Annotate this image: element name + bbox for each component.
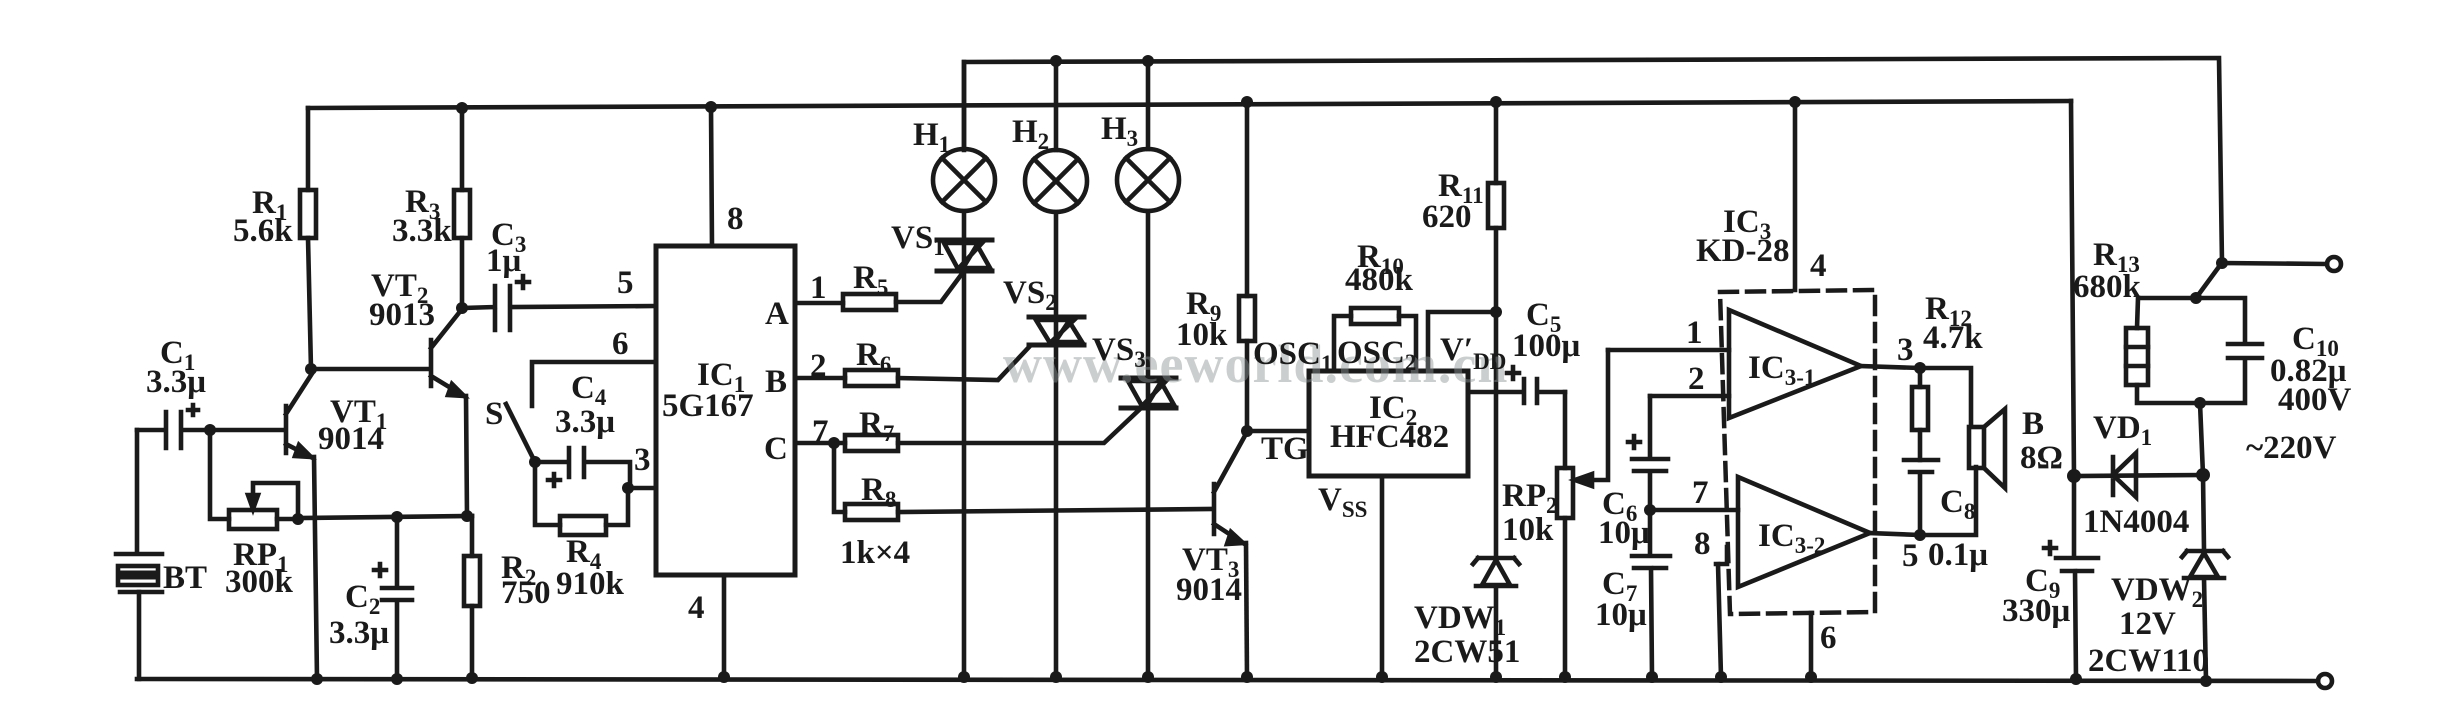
transistor VT2 [431,309,464,396]
svg-text:1: 1 [1686,315,1703,351]
svg-text:4: 4 [1810,248,1827,284]
wire IC3-2 output node5 [1870,467,1976,535]
wire IC2 VSS to ground [1380,476,1385,677]
resistor R8 [834,443,1212,520]
wire BT to ground rail [137,592,142,679]
svg-text:8Ω: 8Ω [2020,440,2063,476]
svg-text:750: 750 [501,575,551,611]
svg-text:1N4004: 1N4004 [2083,504,2189,540]
resistor R2 [464,516,480,679]
capacitor C4 [535,448,630,488]
svg-text:C: C [764,431,788,467]
wire VT1 collector to VT2 base [311,367,429,372]
op-amp IC3-2 [1738,477,1870,587]
svg-text:S: S [485,396,503,432]
wire ground rail [137,679,2318,681]
svg-text:TG: TG [1261,431,1309,467]
svg-text:OSC2: OSC2 [1337,335,1416,375]
svg-text:1μ: 1μ [486,243,522,279]
op-amp U2 IC2 HFC482 box [1309,371,1468,476]
svg-text:12V: 12V [2119,606,2176,642]
resistor R6 [795,346,1030,386]
wire H2 down chain [1054,212,1059,677]
triac VS3 [1121,378,1176,408]
lamp H1 [933,62,995,211]
svg-text:9013: 9013 [369,297,435,333]
capacitor C7 [1632,510,1670,677]
capacitor C2 [374,517,412,679]
wire IC3-1 output node3 [1861,366,1971,426]
svg-text:A: A [765,296,789,332]
svg-text:2: 2 [810,348,827,384]
potentiometer RP1 [210,430,298,529]
wire VDW1 branch [1494,312,1499,677]
svg-text:6: 6 [612,326,629,362]
svg-text:3: 3 [1897,332,1914,368]
wire IC3 pin2 [1650,394,1729,399]
svg-text:620: 620 [1422,199,1472,235]
svg-text:480k: 480k [1345,262,1414,298]
svg-text:9014: 9014 [318,421,384,457]
svg-text:HFC482: HFC482 [1330,419,1449,455]
svg-text:4.7k: 4.7k [1923,320,1983,356]
svg-text:10k: 10k [1176,317,1228,353]
transistor VT1 [210,372,313,457]
svg-text:OSC1: OSC1 [1253,336,1332,376]
wire VDD pin of IC2 [1428,312,1496,371]
svg-text:KD-28: KD-28 [1696,233,1790,269]
svg-text:1k×4: 1k×4 [840,535,910,571]
svg-text:9014: 9014 [1176,572,1242,608]
svg-text:400V: 400V [2278,382,2352,418]
wire RP1 to R2 (emitter bus) [298,516,472,518]
svg-text:7: 7 [812,414,829,450]
svg-text:8: 8 [727,201,744,237]
svg-text:0.1μ: 0.1μ [1928,537,1988,573]
svg-text:B: B [765,364,787,400]
resistor R13 [2126,298,2200,403]
resistor R1 [300,108,316,369]
svg-text:680k: 680k [2073,269,2142,305]
capacitor C9 [2044,476,2098,679]
lamp H2 [1025,61,1087,212]
resistor R5 [795,271,964,310]
svg-text:5G167: 5G167 [662,388,754,424]
svg-text:2CW110: 2CW110 [2088,643,2209,679]
svg-text:B: B [2022,406,2044,442]
capacitor C6 [1628,396,1668,510]
svg-text:6: 6 [1820,620,1837,656]
op-amp U3 IC3 KD-28 dashed box [1720,290,1875,614]
resistor R3 [454,108,470,308]
svg-text:7: 7 [1692,475,1709,511]
wire VT3 emitter to ground [1246,543,1247,677]
zener VDW2 [2182,475,2228,681]
svg-text:~220V: ~220V [2246,430,2337,466]
potentiometer RP2 [1557,350,1608,677]
svg-text:5.6k: 5.6k [233,213,293,249]
resistor R11 [1488,102,1504,312]
svg-text:5: 5 [1902,538,1919,574]
svg-text:10μ: 10μ [1595,597,1647,633]
svg-text:300k: 300k [225,564,294,600]
wire TG node to IC2 [1247,429,1309,434]
wire VDD rail right drop [2071,101,2074,476]
wire IC1 pin4 to ground [722,575,727,677]
wire C10 bottom to VD1 [2200,403,2203,475]
wire pin3 to IC1 [628,486,656,491]
terminal AC top [2327,257,2341,271]
resistor R7 [795,409,1140,451]
piezo BT [116,554,162,592]
zener VDW1 [1473,558,1519,586]
svg-text:910k: 910k [556,566,625,602]
triac VS2 [1029,317,1084,345]
capacitor C5 [1468,367,1565,403]
svg-text:2: 2 [1688,361,1705,397]
wire IC3 pin7 [1650,508,1738,513]
svg-text:1: 1 [810,270,827,306]
wire IC3 pin4 to VDD rail [1793,102,1798,290]
wire IC3 pin6 to ground [1809,613,1814,677]
resistor R9 [1239,102,1255,431]
wire VT2 emitter down [466,396,467,516]
resistor R12 [1912,368,1928,460]
svg-text:10μ: 10μ [1598,515,1650,551]
capacitor C10 [2196,298,2262,403]
svg-text:4: 4 [688,590,705,626]
wire IC3 pin8 to ground [1716,547,1727,677]
svg-text:10k: 10k [1502,512,1554,548]
svg-text:3.3μ: 3.3μ [146,364,206,400]
wire top power rail [964,58,2222,263]
svg-text:3.3k: 3.3k [392,213,452,249]
triac VS1 [937,240,992,271]
transistor VT3 [1214,432,1247,544]
svg-text:3.3μ: 3.3μ [555,404,615,440]
svg-text:3: 3 [634,442,651,478]
wire IC3 pin1 [1608,348,1729,353]
svg-text:330μ: 330μ [2002,593,2071,629]
capacitor C3 [462,276,656,330]
wire C1 left to BT [135,430,140,553]
terminal AC bottom [2318,674,2332,688]
speaker B [1969,409,2005,488]
capacitor C1 [137,405,210,448]
svg-text:5: 5 [617,265,634,301]
lamp H3 [1117,61,1179,211]
op-amp IC3-1 [1729,310,1861,418]
capacitor C8 [1904,460,1938,535]
svg-text:2CW51: 2CW51 [1414,634,1520,670]
wire top-right drop to AC terminal [2196,263,2327,298]
diode VD1 [2074,453,2203,497]
svg-text:3.3μ: 3.3μ [329,615,389,651]
wire VDD rail [308,101,2071,108]
wire VT1 emitter to ground [314,457,317,679]
switch S [506,362,656,462]
svg-text:8: 8 [1694,526,1711,562]
wire H3 down chain [1146,211,1151,677]
wire H1 down chain [962,211,967,677]
svg-text:100μ: 100μ [1512,328,1581,364]
resistor R4 [535,462,628,535]
op-amp U1 IC1 5G167 box [656,246,795,575]
wire IC1 pin8 to VDD rail [711,107,712,246]
svg-text:BT: BT [163,560,207,596]
resistor R10 [1334,308,1416,371]
